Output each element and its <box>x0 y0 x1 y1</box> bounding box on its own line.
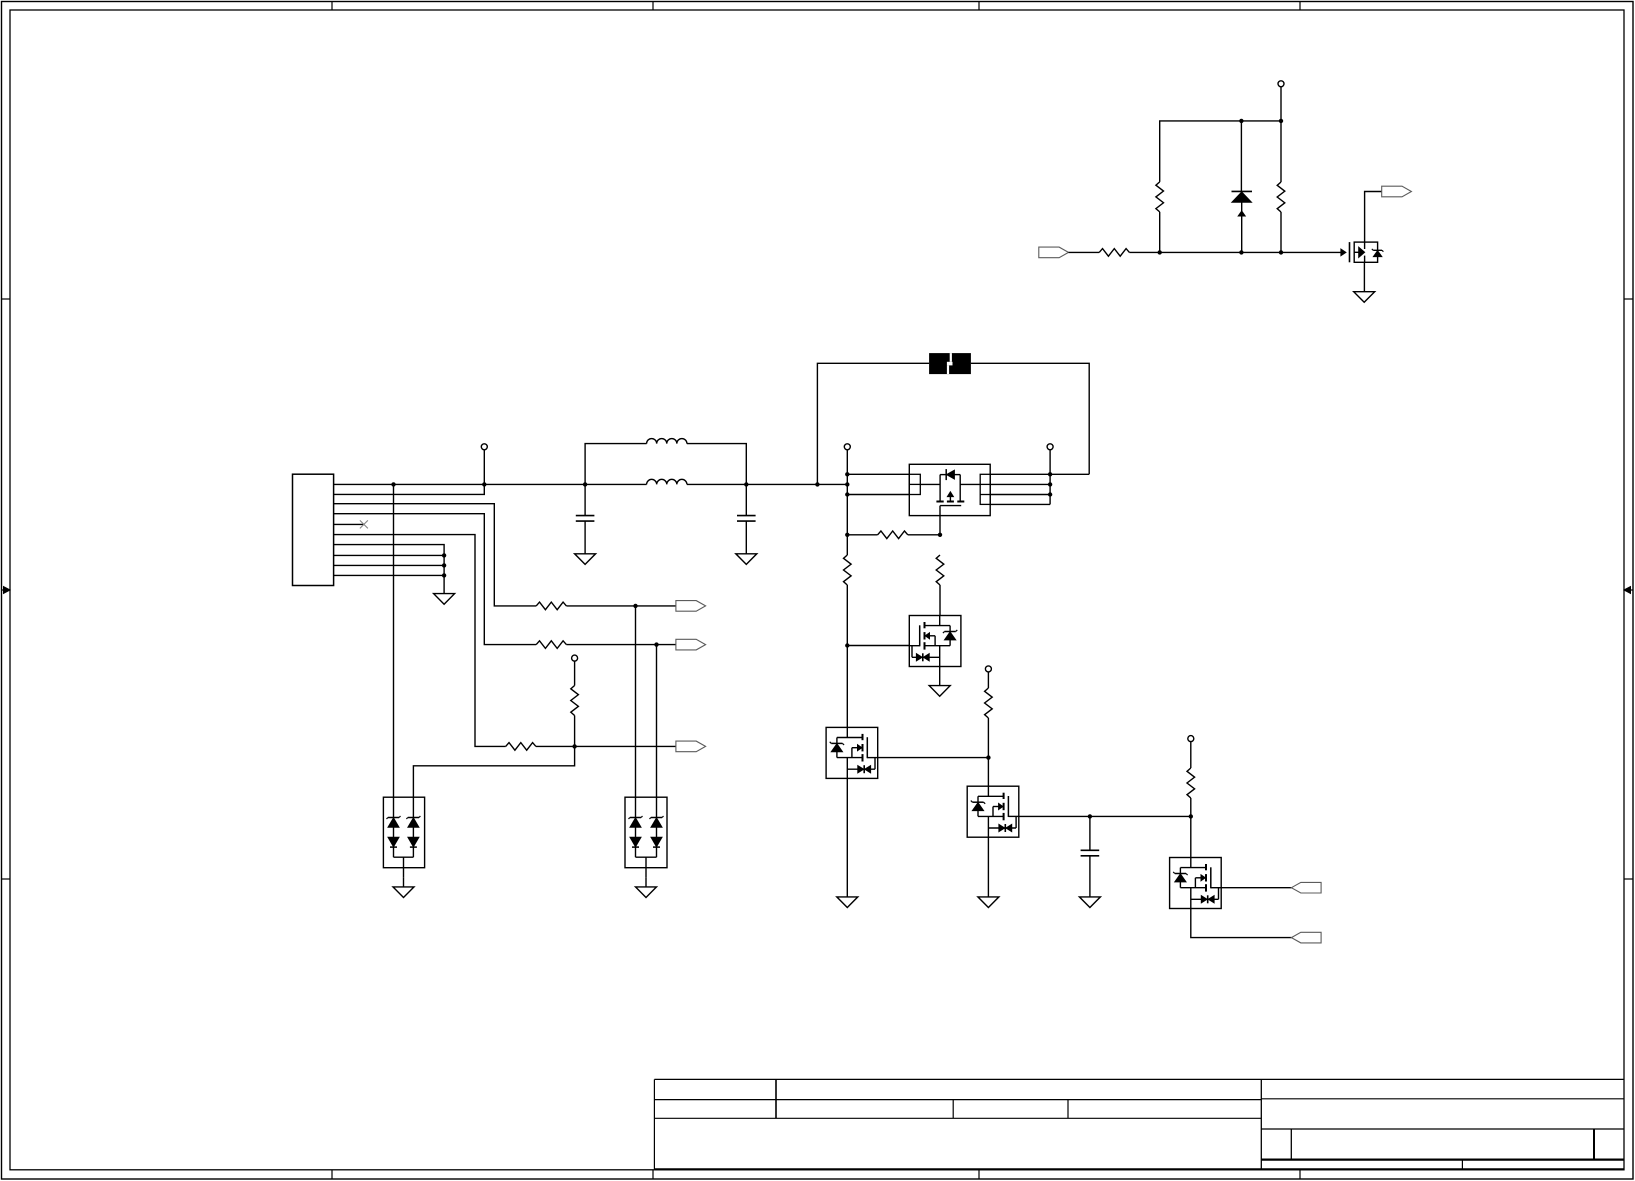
transistor Q2 <box>826 727 878 778</box>
wire IN3 to resistor R1 <box>1069 251 1100 253</box>
wire Q2 source to ground <box>846 778 848 897</box>
wire Q6 drain to output flag <box>1365 192 1382 243</box>
wire D1 tail to ground <box>403 877 405 887</box>
wire R2 to top rail <box>1160 121 1281 182</box>
wire down to resistor R12 <box>1280 121 1282 182</box>
junction <box>1048 472 1052 476</box>
wire up to resistor R2 <box>1159 212 1161 253</box>
wire package left pins <box>847 473 909 475</box>
wire J1 pin1 main net to Q3 package <box>334 483 647 485</box>
diode array D1 <box>383 797 424 868</box>
input flag IN3 <box>1039 247 1069 258</box>
wire R11 to node <box>1190 798 1192 816</box>
capacitor C3 <box>1081 849 1100 851</box>
junction <box>391 482 395 486</box>
resistor R11 <box>1187 768 1195 798</box>
ground <box>393 887 414 898</box>
junction <box>1158 250 1162 254</box>
resistor R1 <box>1099 249 1129 257</box>
junction <box>744 482 748 486</box>
junction <box>1279 119 1283 123</box>
wire package right pins <box>990 483 1050 485</box>
diode array D2 <box>625 797 667 868</box>
wire left vertical net <box>846 450 848 555</box>
wire R4 to output flag <box>566 644 676 646</box>
wire Q3 gate drop <box>939 516 941 535</box>
wire to gate resistor R7 <box>847 534 877 536</box>
wire R9 to Q1 drain <box>939 585 941 616</box>
junction <box>442 573 446 577</box>
output flag OUT4 <box>1382 186 1412 197</box>
ground <box>736 554 757 565</box>
wire to capacitor C3 <box>1089 816 1091 850</box>
wire right vertical net <box>1049 450 1051 505</box>
power node P6 <box>1188 736 1194 742</box>
junction <box>815 482 819 486</box>
wire J1 pin2 <box>334 484 485 494</box>
resistor R8 (left pulldown) <box>844 555 852 585</box>
wire fuse to right drop <box>971 363 1089 474</box>
power node P7 <box>1278 81 1284 87</box>
wire Q2 gate to node <box>878 757 989 759</box>
resistor R7 <box>878 531 908 539</box>
output flag OUT2 <box>676 639 706 650</box>
diode D3 <box>1232 190 1253 192</box>
output flag OUT1 <box>676 601 706 612</box>
wire to diode array D1 right <box>413 746 574 817</box>
wire pin1 down to diode array D1 <box>393 484 395 817</box>
resistor R4 <box>536 641 566 649</box>
wire P2 to resistor R6 <box>574 661 576 685</box>
ground <box>575 554 596 565</box>
wire Q5 source to input flag <box>1191 909 1292 938</box>
wire J1 pin5 stub <box>334 523 364 525</box>
wire down to diode array D2 right <box>656 645 658 818</box>
junction <box>845 472 849 476</box>
wire top rail to diode D3 <box>1240 121 1242 191</box>
power node P2 <box>572 655 578 661</box>
wire Q4 source to ground <box>987 837 989 897</box>
wire C3 to ground <box>1089 856 1091 897</box>
wire Q4 gate line <box>1019 815 1191 817</box>
power node P5 <box>985 666 991 672</box>
ground <box>929 686 950 697</box>
wire down to diode array D2 left <box>635 606 637 818</box>
wire R10 down to Q4 drain <box>987 718 989 758</box>
junction <box>654 642 658 646</box>
junction <box>633 604 637 608</box>
wire loop up to fuse F1 <box>817 363 929 484</box>
ground <box>1079 897 1100 908</box>
wire P7 stem <box>1280 87 1282 121</box>
wire R7 to Q3 gate <box>908 534 940 536</box>
transistor Q1 <box>909 616 961 667</box>
transistor Q6 gate arrow <box>1341 249 1346 256</box>
wire P5 to resistor R10 <box>987 672 989 688</box>
transistor Q4 <box>967 786 1019 837</box>
junction <box>845 482 849 486</box>
junction <box>1189 814 1193 818</box>
ground <box>434 594 455 605</box>
ground <box>636 887 657 898</box>
wire R8 down to Q2 drain <box>846 585 848 727</box>
wire right drop to Q3 package pins <box>990 473 1089 475</box>
fuse F1 <box>929 353 971 374</box>
wire C1 to ground <box>584 521 586 554</box>
resistor R3 <box>536 602 566 610</box>
wire P1 stem <box>483 450 485 485</box>
junction <box>1239 119 1243 123</box>
wire to capacitor C1 <box>584 484 586 515</box>
junction <box>1088 814 1092 818</box>
inductor L2 <box>647 479 687 484</box>
capacitor C2 <box>737 515 756 517</box>
resistor R2 <box>1156 182 1164 212</box>
wire D2 tail to ground <box>645 877 647 887</box>
junction <box>1239 250 1243 254</box>
input flag IN2 <box>1291 932 1321 943</box>
resistor R5 <box>506 743 536 751</box>
wire P6 to resistor R11 <box>1190 742 1192 768</box>
wire R6 to node <box>574 716 576 747</box>
capacitor C1 <box>576 515 595 517</box>
wire R12 to main <box>1280 212 1282 252</box>
connector J1 <box>293 474 334 585</box>
transistor Q3 (dual MOSFET package) <box>909 464 990 515</box>
ground <box>837 897 858 908</box>
junction <box>442 563 446 567</box>
wire J1 pin6 to resistor R5 <box>334 535 506 747</box>
wire J1 pin4 to resistor R4 <box>334 514 537 645</box>
output flag OUT3 <box>676 741 706 752</box>
ground <box>1354 292 1375 303</box>
power node P3 <box>844 444 850 450</box>
wire main net after inductor L2 <box>687 483 847 485</box>
resistor R9 <box>936 555 944 585</box>
transistor Q6 <box>1349 242 1351 262</box>
junction <box>572 744 576 748</box>
wire to inductor L1 <box>585 444 647 485</box>
wire L1 to node <box>687 444 746 485</box>
junction <box>845 492 849 496</box>
junction <box>442 553 446 557</box>
junction <box>482 482 486 486</box>
no-connect X on pin5 <box>360 520 368 528</box>
wire R1 to Q6 gate (main) <box>1129 251 1341 253</box>
wire Q6 source to ground <box>1363 262 1365 291</box>
wire C2 to ground <box>745 521 747 554</box>
resistor R12 <box>1277 182 1285 212</box>
transistor Q5 <box>1170 858 1222 909</box>
junction <box>845 533 849 537</box>
wire to capacitor C2 <box>745 484 747 515</box>
wire J1 pin3 to resistor R3 <box>334 504 537 606</box>
wire D3 anode to main <box>1241 216 1243 252</box>
power node P4 <box>1047 444 1053 450</box>
wire J1 pins7-10 to ground <box>334 545 445 594</box>
wire Q5 gate to input flag <box>1221 887 1291 889</box>
wire Q1 source to ground <box>939 667 941 686</box>
inductor L1 <box>647 439 687 444</box>
junction <box>1048 482 1052 486</box>
arrow mark on D3 anode <box>1238 211 1245 216</box>
wire R3 to output flag <box>566 605 676 607</box>
junction <box>986 755 990 759</box>
junction <box>1279 250 1283 254</box>
resistor R6 <box>571 686 579 716</box>
junction <box>583 482 587 486</box>
junction <box>1048 492 1052 496</box>
power node P1 <box>481 444 487 450</box>
junction <box>845 643 849 647</box>
junction <box>938 533 942 537</box>
wire node down to Q5 drain <box>1190 816 1192 857</box>
input flag IN1 <box>1291 882 1321 893</box>
resistor R10 <box>985 688 993 718</box>
ground <box>978 897 999 908</box>
wire R5 to output flag <box>536 745 676 747</box>
wire to Q1 gate <box>847 645 909 647</box>
